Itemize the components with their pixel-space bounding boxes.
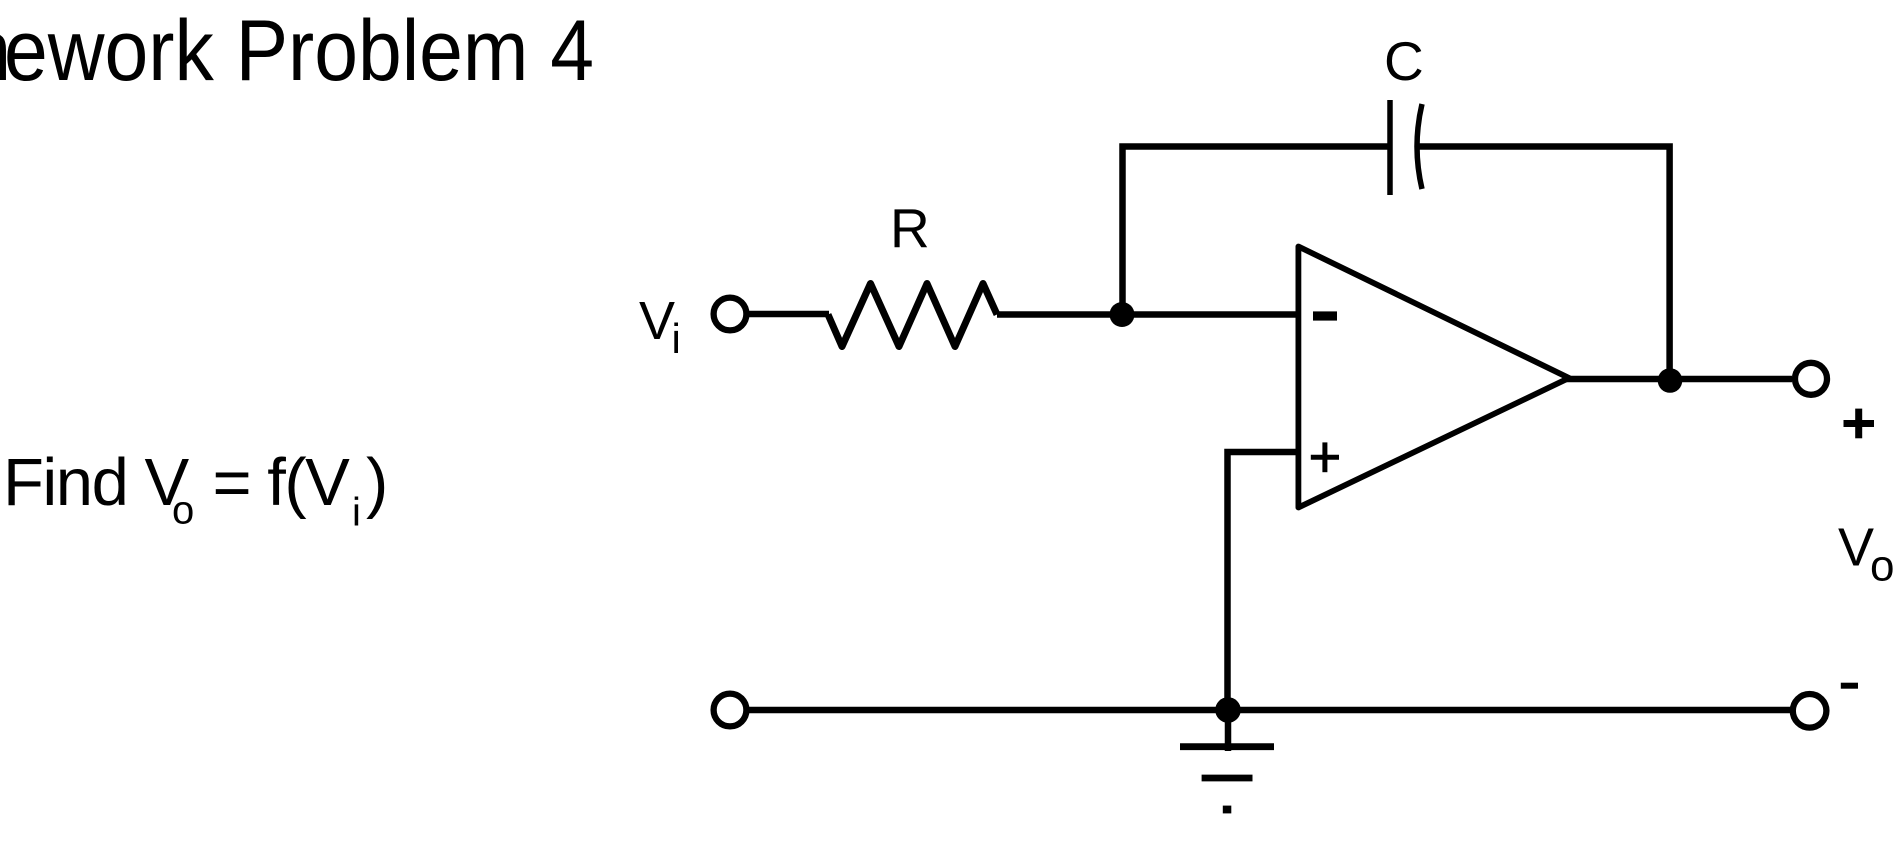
terminal bottom left (open circle) (714, 694, 747, 727)
wire Vi terminal to resistor R (749, 311, 829, 318)
feedback wire left: node A up and right to capacitor C (1123, 147, 1391, 315)
label Vo (1838, 518, 1894, 591)
op-amp inverting pin label (minus) (1313, 311, 1337, 320)
label - output polarity (1841, 683, 1858, 689)
op-amp non-inverting pin label (plus) (1311, 442, 1339, 472)
wire resistor R to node A (997, 311, 1122, 318)
svg-text:R: R (890, 197, 930, 259)
svg-text:V: V (1838, 518, 1874, 578)
label Vi (639, 291, 681, 362)
terminal Vi (input open circle) (714, 298, 747, 331)
bottom rail wire (749, 707, 1791, 714)
node B junction dot (output node) (1658, 368, 1683, 393)
terminal bottom right (open circle, - side) (1793, 694, 1827, 728)
wire op-amp non-inverting input down to ground rail (1228, 452, 1299, 710)
capacitor C (left flat plate, right curved plate) (1390, 100, 1422, 195)
wire op-amp output to terminal Vo (1566, 376, 1792, 383)
title text "Homework Problem 4" (cropped at left edge) (0, 3, 594, 99)
node G junction dot (ground node) (1215, 697, 1241, 723)
resistor R (zigzag) (828, 284, 997, 347)
svg-text:V: V (639, 291, 675, 351)
node A junction dot (inverting input node) (1110, 302, 1135, 327)
wire node A to op-amp inverting input (1122, 311, 1298, 318)
svg-text:o: o (1870, 542, 1894, 591)
svg-text:i: i (672, 315, 681, 362)
terminal Vo (output open circle, + side) (1795, 363, 1827, 395)
svg-text:C: C (1384, 30, 1424, 92)
problem text "Find Vo = f(Vi)" (3, 445, 387, 535)
op-amp U1 (triangle) (1298, 247, 1569, 508)
ground symbol (1180, 710, 1274, 813)
feedback wire right: capacitor C to output node B (1419, 147, 1670, 381)
label + output polarity (1844, 409, 1875, 439)
svg-text:ework Problem 4: ework Problem 4 (4, 3, 594, 99)
